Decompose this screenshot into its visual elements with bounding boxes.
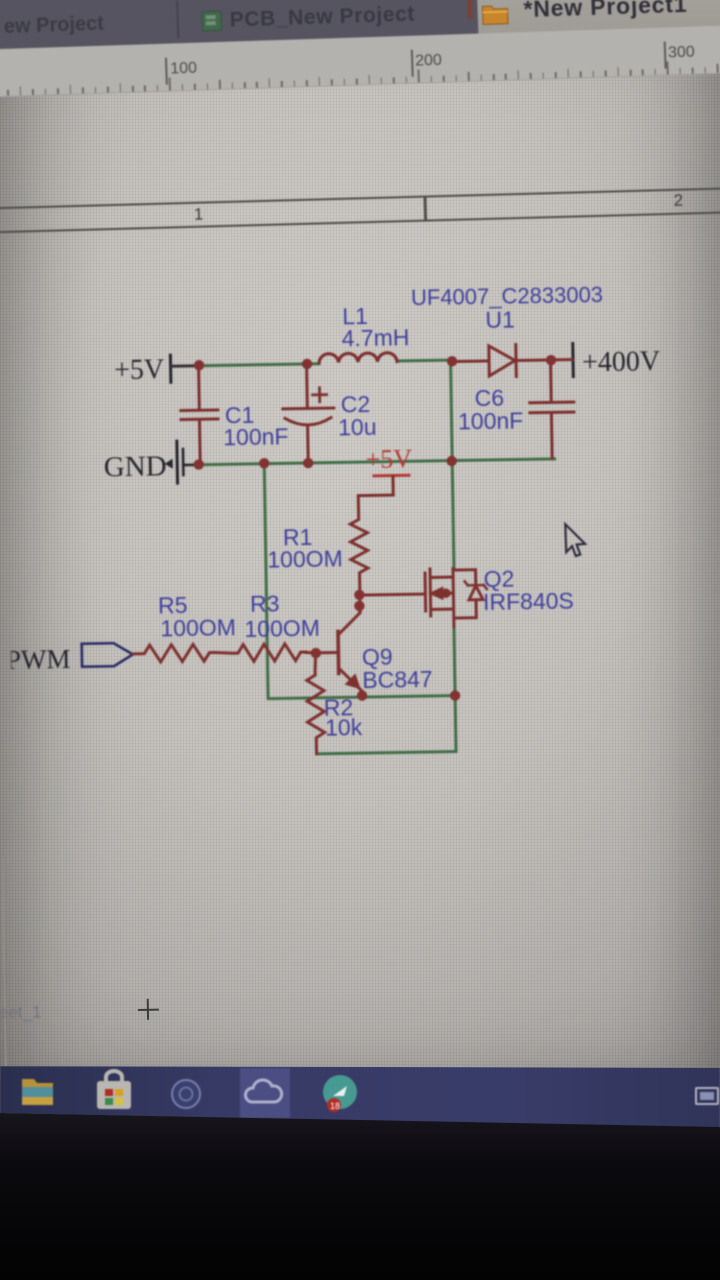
label L1 — [341, 302, 410, 351]
label C1 — [223, 401, 289, 450]
inductor L1 — [319, 353, 397, 363]
resistor R2 — [306, 653, 325, 754]
capacitor C6 — [529, 362, 575, 459]
wire GND rail — [196, 459, 555, 465]
active tab left red strip — [467, 0, 473, 19]
diode U1 — [452, 344, 552, 378]
wire gate node — [359, 594, 424, 595]
junction diode cathode / C6 / +400V — [546, 355, 557, 366]
capacitor C1 — [180, 367, 219, 463]
wire +5V rail top — [198, 360, 452, 366]
svg-text:R3: R3 — [250, 590, 280, 616]
port +5V left — [114, 354, 199, 386]
svg-text:100nF: 100nF — [458, 407, 524, 434]
taskbar globe icon — [171, 1079, 201, 1109]
junction +5V rail / C2 and L1 — [302, 359, 313, 370]
junction GND rail / left tap — [259, 458, 270, 469]
taskbar folder icon — [22, 1079, 53, 1105]
taskbar tray icon — [696, 1088, 718, 1104]
resistor R3 — [215, 643, 316, 662]
junction ground / MOSFET source corner — [450, 690, 461, 701]
junction base node (R3 / R2 / Q9 base) — [311, 648, 322, 659]
svg-text:PWM: PWM — [6, 644, 71, 675]
junction GND rail / C2 — [303, 458, 314, 469]
label U1 UF4007_C2833003 — [411, 282, 604, 334]
svg-text:100OM: 100OM — [244, 615, 320, 642]
label R1 — [267, 523, 343, 572]
svg-text:18: 18 — [330, 1101, 340, 1111]
active tab folder icon — [481, 3, 509, 26]
port GND — [103, 441, 197, 485]
svg-text:+5V: +5V — [365, 444, 412, 474]
circuit goes here — [0, 281, 667, 759]
transistor Q9 — [315, 606, 362, 696]
plus marker — [138, 1009, 159, 1012]
tab separator — [176, 0, 179, 38]
resistor R1 — [349, 477, 395, 613]
taskbar (unrotated) — [0, 1066, 720, 1128]
svg-text:100OM: 100OM — [160, 614, 236, 641]
junction +5V rail / C1 — [194, 360, 205, 371]
svg-text:100nF: 100nF — [223, 423, 289, 450]
tab: PCB_New Project — [229, 3, 415, 33]
label Q9 — [362, 643, 433, 693]
svg-text:+5V: +5V — [114, 354, 165, 386]
taskbar chat icon — [323, 1075, 357, 1112]
svg-text:10k: 10k — [325, 714, 363, 741]
tab: ew Project — [4, 13, 105, 39]
svg-text:100OM: 100OM — [267, 545, 343, 572]
label R3 — [244, 590, 320, 642]
port +400V — [551, 342, 661, 379]
junction gate node upper (R1 / gate wire) — [354, 590, 365, 601]
wire source to ground vertical — [454, 626, 455, 696]
svg-text:10u: 10u — [338, 414, 377, 441]
label C2 — [338, 391, 377, 441]
mouse cursor — [565, 524, 585, 556]
black bezel — [0, 1100, 720, 1280]
wire GND left vertical — [264, 464, 268, 699]
junction GND rail / drain branch — [446, 456, 457, 467]
tab: *New Project1 — [523, 0, 688, 23]
junction GND rail / C1 — [193, 459, 204, 470]
svg-text:IRF840S: IRF840S — [483, 588, 574, 616]
capacitor C2 (polarized) — [282, 366, 335, 462]
net flag +5V (red) — [365, 444, 412, 495]
tab icon PCB — [201, 11, 222, 32]
label R5 — [158, 591, 236, 641]
transistor Q2 (MOSFET) — [425, 568, 487, 627]
wire drain vertical — [451, 364, 454, 569]
junction gate node lower (Q9 collector) — [354, 601, 365, 612]
label Q2 — [482, 565, 574, 615]
label R2 — [324, 694, 363, 741]
junction Q9 emitter / ground wire — [357, 690, 368, 701]
taskbar cloud tile — [240, 1068, 290, 1118]
svg-text:U1: U1 — [485, 307, 515, 333]
resistor R5 — [133, 644, 215, 662]
wire ground bottom horizontal — [268, 696, 455, 699]
svg-text:4.7mH: 4.7mH — [341, 324, 409, 351]
svg-text:BC847: BC847 — [362, 666, 433, 693]
junction diode anode / drain branch — [447, 356, 458, 367]
taskbar bag icon — [97, 1071, 131, 1109]
label C6 — [457, 384, 523, 434]
wire ground loop to R2 bottom — [316, 696, 456, 754]
svg-text:+400V: +400V — [582, 346, 661, 378]
svg-text:GND: GND — [103, 450, 166, 483]
port PWM — [6, 643, 133, 675]
